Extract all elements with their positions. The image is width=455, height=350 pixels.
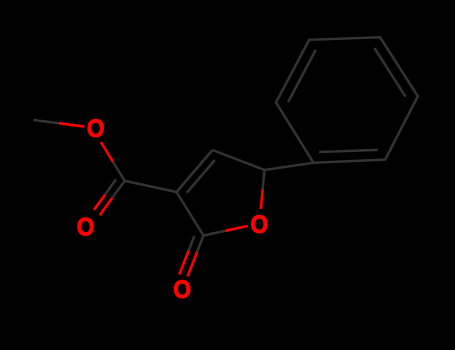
ring C3=C4 double bond inner line <box>187 160 215 193</box>
ester carbonyl C=O double bond, principal line red half <box>100 198 113 215</box>
wire CH3-O red half <box>59 123 85 126</box>
ester C=O second line gray half <box>105 179 116 194</box>
lactone C2=O4 second line gray half <box>189 236 195 251</box>
svg-text:O: O <box>173 276 191 304</box>
lactone C2=O4 principal red half <box>188 252 198 277</box>
lactone C2=O4 second line red half <box>179 251 188 275</box>
lactone C2=O4 double bond principal gray half <box>197 236 203 252</box>
wire O1 to carbonyl carbon, gray half <box>113 162 125 181</box>
benzene aromatic inner line left-top edge <box>288 50 316 102</box>
wire C4 to C5 <box>213 150 265 170</box>
wire ester carbonyl C to ring C3 <box>125 181 177 192</box>
wire ring O3 to C5 gray half <box>263 170 265 190</box>
ester C=O second line red half <box>94 195 105 210</box>
benzene aromatic inner line right-top edge <box>374 48 405 97</box>
wire O1 to carbonyl carbon, red half <box>101 142 113 162</box>
svg-text:O: O <box>77 213 95 241</box>
ester carbonyl C=O double bond, principal line gray half <box>112 181 125 198</box>
methyl group CH3 (gray half of CH3-O bond) <box>34 120 60 123</box>
benzene aromatic inner line bottom edge <box>319 150 378 152</box>
svg-text:O: O <box>250 211 268 239</box>
node O2 ester carbonyl oxygen label <box>77 213 95 241</box>
benzene ring outline <box>276 37 418 162</box>
ring C3=C4 double bond principal line <box>177 150 213 192</box>
node O3 ring oxygen label <box>250 211 268 239</box>
node O4 lactone carbonyl oxygen label <box>173 276 191 304</box>
wire ring O3 to C5 red half <box>261 190 263 210</box>
svg-text:O: O <box>87 115 105 143</box>
wire ring C3 to C2 <box>177 192 204 236</box>
wire C5 to phenyl ipso carbon <box>265 163 314 170</box>
wire C2 to ring O3 gray half <box>204 231 226 236</box>
wire C2 to ring O3 red half <box>225 226 248 231</box>
node O1 ester ether oxygen label <box>87 115 105 143</box>
